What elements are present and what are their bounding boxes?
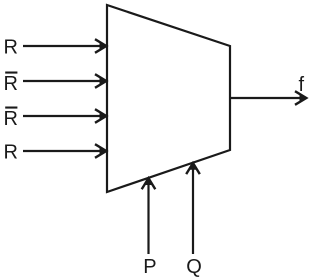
svg-text:R: R — [4, 141, 18, 163]
wire input 0 — [23, 45, 100, 47]
arrowhead select P — [142, 178, 156, 190]
arrowhead select Q — [186, 162, 200, 174]
svg-text:P: P — [143, 256, 156, 278]
arrowhead input 0 — [95, 39, 107, 53]
multiplexer U1 (trapezoid body) — [107, 5, 230, 192]
wire output f — [230, 97, 300, 99]
svg-text:Q: Q — [186, 256, 202, 278]
wire input 3 — [23, 150, 100, 152]
arrowhead input 2 — [95, 109, 107, 123]
wire select P — [147, 184, 149, 254]
arrowhead input 1 — [95, 74, 107, 88]
label R-bar (input 2) — [4, 107, 18, 131]
arrowhead output f — [295, 91, 307, 105]
svg-text:R: R — [4, 108, 18, 130]
wire input 2 — [23, 115, 100, 117]
arrowhead input 3 — [95, 144, 107, 158]
label R-bar (input 1) — [4, 72, 18, 96]
wire input 1 — [23, 80, 100, 82]
svg-text:R: R — [4, 73, 18, 95]
svg-text:R: R — [4, 36, 18, 58]
wire select Q — [192, 169, 194, 254]
